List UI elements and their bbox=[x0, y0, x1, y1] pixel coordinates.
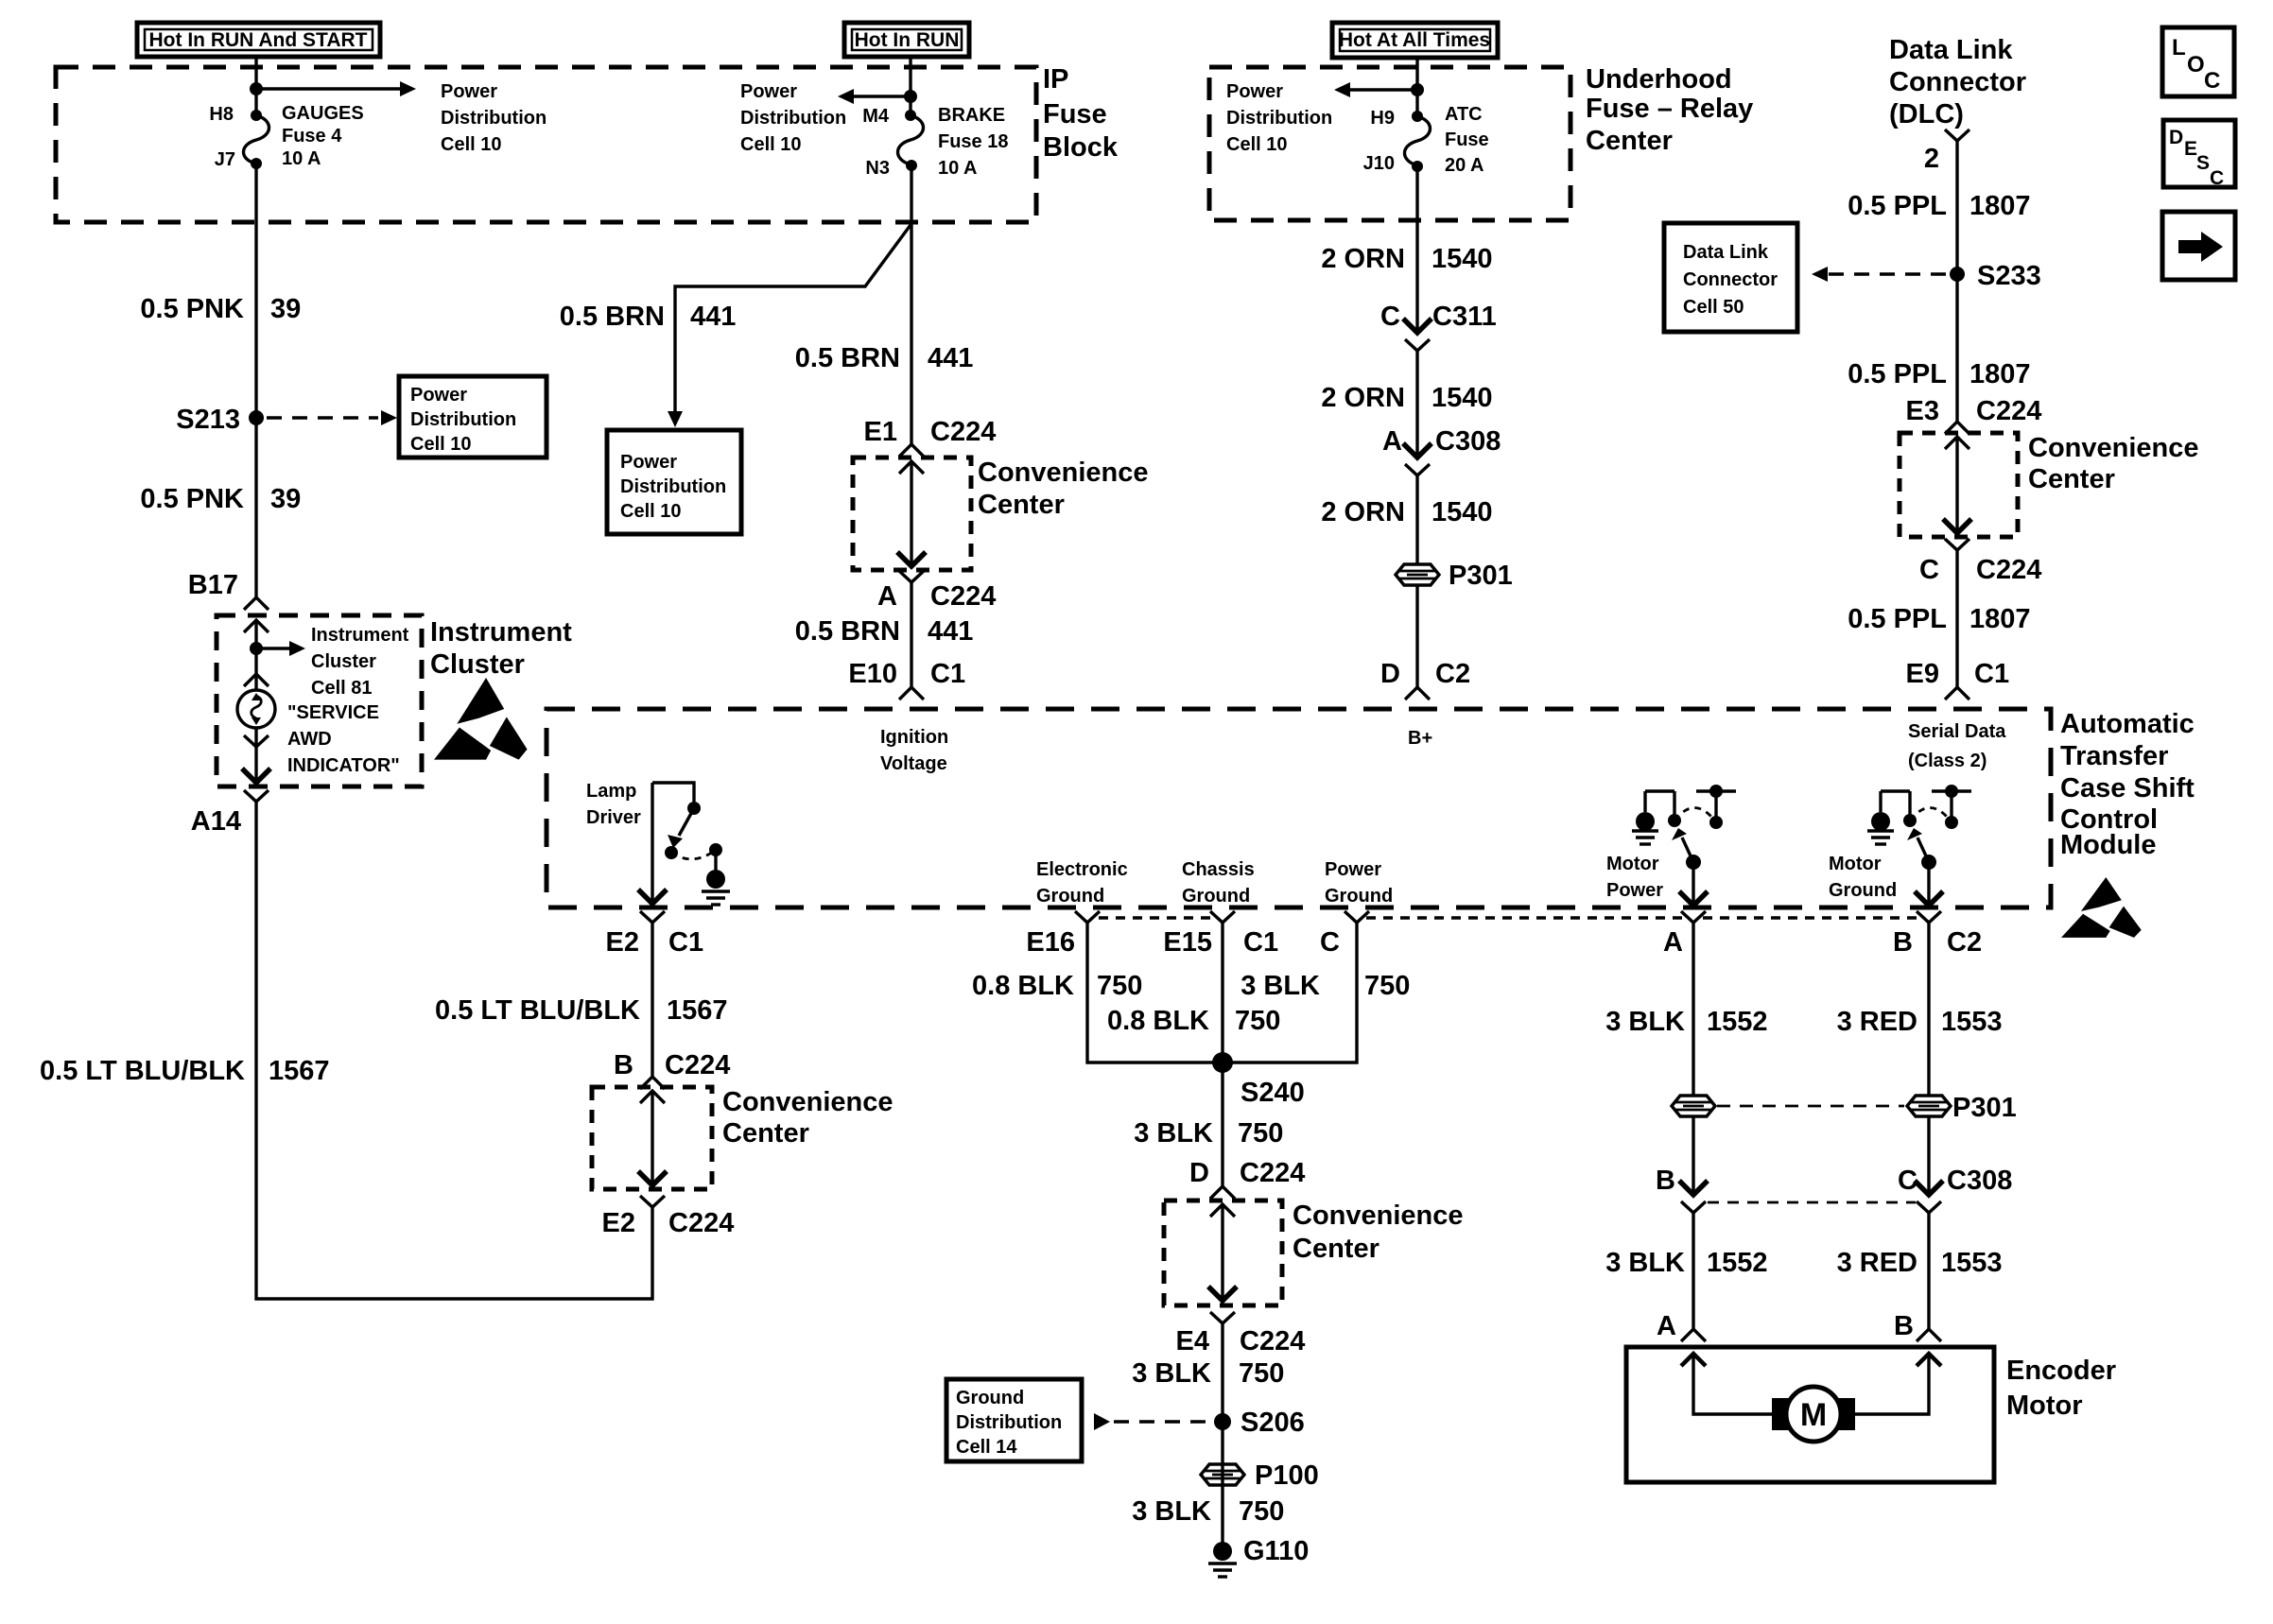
Convenience Center dashed box (D-E4) bbox=[1164, 1201, 1282, 1305]
wire label 3 BLK 1552 (lower) bbox=[1605, 1248, 1767, 1278]
dashed reference arrow from S213 bbox=[267, 410, 397, 425]
wire N3 down to E1 bbox=[910, 165, 912, 444]
wire C308 to encoder B bbox=[1927, 1212, 1930, 1329]
svg-text:1540: 1540 bbox=[1431, 383, 1493, 413]
pin E3 / connector C224 bbox=[1906, 396, 2042, 426]
svg-text:Instrument: Instrument bbox=[311, 625, 409, 646]
label: Motor Ground bbox=[1829, 854, 1897, 901]
svg-text:1552: 1552 bbox=[1707, 1248, 1768, 1278]
DESC legend box bbox=[2163, 120, 2235, 189]
pin C / connector C224 (right) bbox=[1919, 555, 2041, 585]
svg-text:0.5 LT BLU/BLK: 0.5 LT BLU/BLK bbox=[40, 1056, 245, 1086]
label: Data Link Connector (DLC) bbox=[1889, 35, 2026, 130]
node S206 bbox=[1214, 1408, 1305, 1438]
connector face dotted line bbox=[1099, 916, 1917, 919]
svg-text:2 ORN: 2 ORN bbox=[1321, 244, 1405, 274]
motor M symbol bbox=[1772, 1387, 1855, 1442]
svg-text:Hot At All Times: Hot At All Times bbox=[1339, 29, 1490, 51]
svg-text:Fuse: Fuse bbox=[1445, 130, 1489, 150]
wire C311 to C308 bbox=[1415, 350, 1418, 458]
grommet P301 (left) bbox=[1672, 1096, 1715, 1116]
wire label 0.5 BRN 441 bbox=[795, 343, 974, 373]
pin E4 / connector C224 bbox=[1176, 1326, 1306, 1356]
svg-text:Center: Center bbox=[978, 490, 1065, 520]
svg-text:441: 441 bbox=[690, 302, 736, 332]
connector chevron A (motor power) bbox=[1681, 911, 1706, 923]
svg-text:Serial Data: Serial Data bbox=[1908, 721, 2006, 742]
connector chevron E10 bbox=[899, 687, 924, 700]
svg-text:A: A bbox=[1663, 927, 1683, 958]
svg-text:H8: H8 bbox=[209, 104, 234, 125]
wire through convenience center bbox=[897, 461, 926, 566]
svg-text:Distribution: Distribution bbox=[956, 1412, 1062, 1433]
svg-text:P100: P100 bbox=[1255, 1460, 1319, 1491]
svg-text:Ground: Ground bbox=[1829, 880, 1897, 901]
svg-text:Center: Center bbox=[722, 1118, 809, 1149]
label: ATC Fuse 20 A bbox=[1445, 104, 1489, 176]
pin E10 / connector C1 bbox=[848, 659, 965, 689]
svg-text:2: 2 bbox=[1924, 144, 1939, 174]
label: Instrument Cluster Cell 81 SERVICE AWD INDICATOR bbox=[287, 625, 409, 776]
svg-text:N3: N3 bbox=[865, 158, 890, 179]
svg-text:Encoder: Encoder bbox=[2006, 1356, 2116, 1386]
svg-text:D: D bbox=[1380, 659, 1400, 689]
wire label 0.5 PPL 1807 bbox=[1848, 191, 2030, 221]
svg-text:S213: S213 bbox=[176, 405, 240, 435]
wire P301 to D C2 bbox=[1415, 584, 1418, 687]
svg-text:Data Link: Data Link bbox=[1889, 35, 2013, 65]
svg-text:Power: Power bbox=[1606, 880, 1663, 901]
svg-text:39: 39 bbox=[270, 484, 301, 514]
svg-text:1552: 1552 bbox=[1707, 1007, 1768, 1037]
dashed link between C308 halves bbox=[1708, 1201, 1916, 1204]
connector chevron above indicator bbox=[244, 674, 269, 686]
wire P301 to B C308 bbox=[1692, 1115, 1694, 1195]
arrow to Power Distribution Cell 10 (middle) bbox=[838, 89, 911, 104]
Power Distribution Cell 10 box (near S213) bbox=[399, 376, 547, 458]
svg-text:(DLC): (DLC) bbox=[1889, 99, 1964, 130]
svg-text:C308: C308 bbox=[1947, 1166, 2012, 1196]
label: Power Distribution Cell 10 (left) bbox=[441, 81, 547, 155]
dashed link between P301 grommets bbox=[1717, 1105, 1904, 1108]
svg-text:AWD: AWD bbox=[287, 729, 332, 750]
svg-text:750: 750 bbox=[1364, 971, 1410, 1001]
svg-text:Case Shift: Case Shift bbox=[2060, 773, 2195, 803]
label: GAUGES Fuse 4 10 A bbox=[282, 103, 364, 169]
connector chevron below indicator bbox=[244, 735, 269, 747]
Automatic Transfer Case Shift Control Module dashed box bbox=[547, 709, 2051, 907]
svg-text:Connector: Connector bbox=[1889, 67, 2026, 97]
wire label 0.5 PPL 1807 (second) bbox=[1848, 359, 2030, 389]
svg-text:Module: Module bbox=[2060, 830, 2157, 860]
dashed reference arrow from S233 bbox=[1812, 267, 1946, 282]
node: junction on brake feed bbox=[904, 90, 917, 103]
svg-text:3 BLK: 3 BLK bbox=[1241, 971, 1320, 1001]
svg-text:Center: Center bbox=[2028, 464, 2115, 494]
svg-text:C1: C1 bbox=[1974, 659, 2009, 689]
svg-text:Fuse – Relay: Fuse – Relay bbox=[1586, 94, 1753, 124]
svg-text:C224: C224 bbox=[665, 1050, 730, 1080]
svg-text:Power: Power bbox=[410, 385, 467, 406]
svg-text:Power: Power bbox=[1325, 859, 1381, 880]
connector chevron B C224 bbox=[640, 1077, 665, 1089]
wire C down to E9 bbox=[1955, 550, 1958, 687]
svg-text:Connector: Connector bbox=[1683, 269, 1778, 290]
wire A (motor power) down to P301 bbox=[1692, 923, 1694, 1097]
svg-text:Distribution: Distribution bbox=[740, 108, 846, 129]
svg-text:S233: S233 bbox=[1977, 261, 2041, 291]
motor ground switch bbox=[1867, 785, 1971, 906]
svg-text:E10: E10 bbox=[848, 659, 897, 689]
svg-text:Power: Power bbox=[1226, 81, 1283, 102]
svg-text:E4: E4 bbox=[1176, 1326, 1209, 1356]
inline connector C311 bbox=[1403, 319, 1431, 351]
svg-text:E9: E9 bbox=[1906, 659, 1939, 689]
wire A14 down and across to E2 C224 bbox=[256, 802, 652, 1299]
Power Distribution Cell 10 box (middle) bbox=[607, 430, 741, 534]
wire from Hot At All Times bbox=[1415, 58, 1418, 116]
svg-text:Fuse 4: Fuse 4 bbox=[282, 126, 342, 147]
pin C / connector C311 bbox=[1380, 302, 1497, 332]
svg-text:A: A bbox=[877, 581, 897, 612]
wire S240 down to D C224 bbox=[1221, 1063, 1223, 1186]
pin A / connector C224 bbox=[877, 581, 996, 612]
svg-text:3 RED: 3 RED bbox=[1837, 1248, 1917, 1278]
connector chevron B C2 bbox=[1917, 911, 1941, 923]
svg-text:C: C bbox=[2204, 68, 2220, 94]
motor power switch bbox=[1632, 785, 1736, 906]
svg-text:Distribution: Distribution bbox=[410, 409, 516, 430]
connector chevron E4 C224 bbox=[1210, 1312, 1235, 1323]
label: BRAKE Fuse 18 10 A bbox=[938, 105, 1008, 179]
svg-text:Fuse 18: Fuse 18 bbox=[938, 131, 1008, 152]
grommet P100 bbox=[1201, 1460, 1319, 1491]
wire label 0.8 BLK 750 (E16) bbox=[972, 971, 1142, 1001]
label: Power Ground bbox=[1325, 859, 1393, 907]
svg-text:441: 441 bbox=[928, 343, 973, 373]
wire label 3 BLK 750 (S240) bbox=[1134, 1118, 1283, 1149]
svg-text:C1: C1 bbox=[930, 659, 965, 689]
wire lamp driver output bbox=[638, 783, 667, 904]
svg-text:Center: Center bbox=[1293, 1234, 1379, 1264]
svg-text:1540: 1540 bbox=[1431, 244, 1493, 274]
ground G110 bbox=[1208, 1536, 1309, 1577]
connector chevron below cluster (A14) bbox=[244, 790, 269, 802]
wire label 0.5 PNK 39 bbox=[140, 294, 301, 324]
svg-text:2 ORN: 2 ORN bbox=[1321, 497, 1405, 527]
svg-text:H9: H9 bbox=[1370, 108, 1395, 129]
pin E1 / connector C224 bbox=[864, 417, 997, 447]
svg-text:Driver: Driver bbox=[586, 807, 641, 828]
svg-text:E3: E3 bbox=[1906, 396, 1939, 426]
node S240 bbox=[1212, 1052, 1305, 1108]
svg-text:0.5 LT BLU/BLK: 0.5 LT BLU/BLK bbox=[435, 995, 640, 1026]
svg-text:C: C bbox=[1898, 1166, 1917, 1196]
pin E2 / connector C1 bbox=[606, 927, 704, 958]
wire E4 down to G110 bbox=[1221, 1323, 1223, 1543]
wire label 2 ORN 1540 (third) bbox=[1321, 497, 1492, 527]
svg-text:E1: E1 bbox=[864, 417, 897, 447]
svg-text:C224: C224 bbox=[1976, 396, 2041, 426]
svg-text:E2: E2 bbox=[602, 1208, 635, 1238]
svg-text:A: A bbox=[1382, 426, 1402, 457]
svg-text:S240: S240 bbox=[1241, 1078, 1305, 1108]
svg-text:S: S bbox=[2196, 152, 2210, 174]
svg-text:Automatic: Automatic bbox=[2060, 709, 2195, 739]
dashed reference arrow to S206 bbox=[1094, 1413, 1210, 1430]
label: Electronic Ground bbox=[1036, 859, 1128, 907]
svg-text:C224: C224 bbox=[1240, 1326, 1305, 1356]
svg-text:1807: 1807 bbox=[1969, 604, 2031, 634]
arrow to Instrument Cluster Cell 81 bbox=[256, 641, 305, 656]
Data Link Connector Cell 50 box bbox=[1664, 223, 1797, 332]
svg-text:B: B bbox=[1656, 1166, 1675, 1196]
wire label 3 BLK 750 (G110) bbox=[1132, 1496, 1284, 1527]
svg-text:B: B bbox=[1893, 927, 1913, 958]
svg-text:C: C bbox=[2210, 167, 2224, 189]
connector chevron A C224 bbox=[899, 571, 924, 582]
svg-text:750: 750 bbox=[1235, 1006, 1280, 1036]
svg-text:Cell 10: Cell 10 bbox=[441, 134, 501, 155]
svg-text:Instrument: Instrument bbox=[430, 617, 572, 648]
wire label 0.5 PPL 1807 (third) bbox=[1848, 604, 2030, 634]
svg-text:C308: C308 bbox=[1435, 426, 1501, 457]
svg-text:C: C bbox=[1380, 302, 1400, 332]
svg-text:Power: Power bbox=[740, 81, 797, 102]
svg-text:Convenience: Convenience bbox=[722, 1087, 894, 1117]
svg-text:Cell 50: Cell 50 bbox=[1683, 297, 1744, 318]
svg-text:Cell 10: Cell 10 bbox=[410, 434, 471, 455]
pin D / connector C2 bbox=[1380, 659, 1470, 689]
svg-text:0.8 BLK: 0.8 BLK bbox=[1107, 1006, 1209, 1036]
wire label 2 ORN 1540 (second) bbox=[1321, 383, 1492, 413]
Convenience Center label (E1-A) bbox=[978, 458, 1149, 520]
label: Chassis Ground bbox=[1182, 859, 1255, 907]
wire inside encoder motor (A side) bbox=[1681, 1354, 1783, 1414]
svg-text:0.5 BRN: 0.5 BRN bbox=[795, 343, 900, 373]
svg-text:J7: J7 bbox=[215, 149, 235, 170]
svg-text:441: 441 bbox=[928, 616, 973, 647]
svg-text:1567: 1567 bbox=[667, 995, 728, 1026]
svg-text:P301: P301 bbox=[1449, 561, 1513, 591]
svg-text:3 BLK: 3 BLK bbox=[1134, 1118, 1213, 1149]
node S213 bbox=[176, 405, 264, 435]
ESD symbol (module) bbox=[2061, 877, 2142, 938]
connector chevron E9 bbox=[1945, 687, 1969, 700]
node: branch to cluster cell bbox=[250, 642, 263, 655]
svg-text:Distribution: Distribution bbox=[620, 476, 726, 497]
svg-text:E: E bbox=[2184, 138, 2197, 160]
svg-text:Cell 10: Cell 10 bbox=[1226, 134, 1287, 155]
svg-text:C224: C224 bbox=[668, 1208, 734, 1238]
grommet P301 bbox=[1396, 561, 1513, 591]
svg-text:0.5 BRN: 0.5 BRN bbox=[795, 616, 900, 647]
wire label 2 ORN 1540 bbox=[1321, 244, 1492, 274]
svg-text:Lamp: Lamp bbox=[586, 781, 636, 802]
svg-text:B: B bbox=[614, 1050, 633, 1080]
svg-text:Cell 81: Cell 81 bbox=[311, 678, 372, 699]
svg-text:1540: 1540 bbox=[1431, 497, 1493, 527]
label: Power Distribution Cell 10 (right) bbox=[1226, 81, 1332, 155]
fuse F4 GAUGES 10A bbox=[244, 110, 269, 169]
svg-text:C311: C311 bbox=[1432, 302, 1497, 332]
node: junction on gauges feed bbox=[250, 82, 263, 95]
Convenience Center label (E3-C) bbox=[2028, 433, 2199, 494]
svg-text:Fuse: Fuse bbox=[1043, 99, 1107, 130]
svg-text:10 A: 10 A bbox=[938, 158, 978, 179]
svg-text:0.5 PPL: 0.5 PPL bbox=[1848, 359, 1947, 389]
svg-text:S206: S206 bbox=[1241, 1408, 1305, 1438]
wire E2 down to B C224 bbox=[651, 923, 653, 1077]
wire label 0.8 BLK 750 (E15) bbox=[1107, 1006, 1280, 1036]
svg-text:B+: B+ bbox=[1408, 728, 1432, 749]
svg-text:Transfer: Transfer bbox=[2060, 741, 2168, 771]
svg-text:Underhood: Underhood bbox=[1586, 64, 1732, 95]
svg-text:Hot In RUN: Hot In RUN bbox=[855, 29, 960, 51]
svg-text:E15: E15 bbox=[1163, 927, 1212, 958]
svg-text:G110: G110 bbox=[1243, 1536, 1309, 1566]
Encoder Motor box bbox=[1626, 1347, 1994, 1482]
inline connector C308 (right) bbox=[1915, 1181, 1943, 1213]
svg-text:20 A: 20 A bbox=[1445, 155, 1484, 176]
svg-text:Motor: Motor bbox=[2006, 1391, 2083, 1421]
svg-text:B17: B17 bbox=[188, 570, 238, 600]
Underhood Fuse-Relay Center dashed box bbox=[1209, 67, 1570, 220]
svg-text:ATC: ATC bbox=[1445, 104, 1483, 125]
svg-text:E16: E16 bbox=[1026, 927, 1075, 958]
arrow to Power Distribution Cell 10 (right) bbox=[1334, 82, 1417, 97]
wire from Hot In RUN bbox=[909, 57, 911, 115]
LOC legend box bbox=[2162, 27, 2234, 96]
svg-text:(Class 2): (Class 2) bbox=[1908, 751, 1987, 771]
svg-text:P301: P301 bbox=[1952, 1093, 2017, 1123]
connector chevron at DLC pin 2 bbox=[1945, 130, 1969, 141]
svg-text:C224: C224 bbox=[1976, 555, 2041, 585]
svg-text:Hot In RUN And START: Hot In RUN And START bbox=[149, 29, 368, 51]
svg-text:Power: Power bbox=[620, 452, 677, 473]
IP Fuse Block label bbox=[1043, 64, 1119, 163]
lamp driver switch bbox=[652, 783, 730, 905]
connector chevron E2 C224 bbox=[640, 1196, 665, 1207]
label: Encoder Motor bbox=[2006, 1356, 2116, 1421]
wire label 0.5 LT BLU/BLK 1567 (left) bbox=[40, 1056, 329, 1086]
svg-text:3 BLK: 3 BLK bbox=[1605, 1007, 1685, 1037]
wire label 3 RED 1553 (lower) bbox=[1837, 1248, 2003, 1278]
Instrument Cluster dashed box bbox=[217, 615, 422, 786]
svg-text:3 BLK: 3 BLK bbox=[1132, 1496, 1211, 1527]
svg-text:Block: Block bbox=[1043, 132, 1119, 163]
svg-text:C224: C224 bbox=[1240, 1158, 1305, 1188]
pin B / connector C2 bbox=[1893, 927, 1982, 958]
grommet P301 (right) bbox=[1907, 1093, 2017, 1123]
svg-text:0.5 BRN: 0.5 BRN bbox=[560, 302, 665, 332]
label box: Hot In RUN bbox=[844, 23, 969, 57]
AWD indicator lamp symbol bbox=[237, 690, 275, 728]
svg-text:INDICATOR": INDICATOR" bbox=[287, 755, 400, 776]
wire DLC down to S233 bbox=[1955, 141, 1958, 422]
wire branch diagonal to power distribution bbox=[668, 225, 911, 427]
svg-text:M4: M4 bbox=[862, 106, 890, 127]
label: Ignition Voltage bbox=[880, 727, 948, 774]
connector chevron inside cluster bbox=[244, 620, 269, 632]
arrow to Power Distribution Cell 10 bbox=[256, 81, 416, 96]
wire label 0.5 LT BLU/BLK 1567 (center) bbox=[435, 995, 727, 1026]
Convenience Center dashed box (E3-C) bbox=[1900, 433, 2018, 537]
Convenience Center label (B-E2) bbox=[722, 1087, 894, 1149]
svg-text:C: C bbox=[1320, 927, 1340, 958]
label: Automatic Transfer Case Shift Control Module bbox=[2060, 709, 2195, 860]
svg-text:Distribution: Distribution bbox=[1226, 108, 1332, 129]
svg-text:C2: C2 bbox=[1435, 659, 1470, 689]
svg-text:3 RED: 3 RED bbox=[1837, 1007, 1917, 1037]
pin E9 / connector C1 bbox=[1906, 659, 2010, 689]
connector chevron B17 bbox=[244, 597, 269, 610]
svg-text:Ignition: Ignition bbox=[880, 727, 948, 748]
connector chevron D bbox=[1405, 687, 1430, 700]
wire through convenience center (D-E4) bbox=[1208, 1204, 1237, 1301]
svg-text:C224: C224 bbox=[930, 581, 996, 612]
svg-text:D: D bbox=[2169, 127, 2183, 148]
svg-text:C2: C2 bbox=[1947, 927, 1982, 958]
svg-text:Electronic: Electronic bbox=[1036, 859, 1128, 880]
wire label 3 BLK 1552 bbox=[1605, 1007, 1767, 1037]
connector chevron D C224 bbox=[1210, 1186, 1235, 1199]
svg-text:2 ORN: 2 ORN bbox=[1321, 383, 1405, 413]
svg-text:1807: 1807 bbox=[1969, 359, 2031, 389]
svg-text:Cluster: Cluster bbox=[430, 649, 525, 680]
svg-text:0.5 PNK: 0.5 PNK bbox=[140, 484, 244, 514]
svg-text:"SERVICE: "SERVICE bbox=[287, 702, 379, 723]
svg-text:O: O bbox=[2187, 52, 2205, 78]
wire from Hot In RUN And START bbox=[254, 57, 257, 115]
ESD symbol (instrument cluster) bbox=[434, 678, 528, 760]
node S233 bbox=[1950, 261, 2041, 291]
svg-text:Center: Center bbox=[1586, 126, 1673, 156]
svg-text:750: 750 bbox=[1239, 1496, 1284, 1527]
svg-text:Cell 10: Cell 10 bbox=[620, 501, 681, 522]
svg-text:39: 39 bbox=[270, 294, 301, 324]
svg-text:0.5 PPL: 0.5 PPL bbox=[1848, 604, 1947, 634]
label: Serial Data (Class 2) bbox=[1908, 721, 2006, 771]
wire J7 down to B17 bbox=[254, 164, 257, 597]
ground bus wires E16 E15 C bbox=[1087, 923, 1357, 1063]
svg-text:Data Link: Data Link bbox=[1683, 242, 1769, 263]
pin E2 / connector C224 bbox=[602, 1208, 735, 1238]
svg-text:D: D bbox=[1189, 1158, 1209, 1188]
svg-text:Cell 10: Cell 10 bbox=[740, 134, 801, 155]
svg-text:1553: 1553 bbox=[1941, 1007, 2003, 1037]
Ground Distribution Cell 14 box bbox=[946, 1379, 1082, 1461]
svg-text:C224: C224 bbox=[930, 417, 996, 447]
svg-text:Voltage: Voltage bbox=[880, 753, 947, 774]
svg-text:1807: 1807 bbox=[1969, 191, 2031, 221]
inline connector C308 (left) bbox=[1679, 1181, 1708, 1213]
svg-text:C1: C1 bbox=[668, 927, 703, 958]
svg-text:GAUGES: GAUGES bbox=[282, 103, 364, 124]
connector chevron E15 bbox=[1210, 911, 1235, 923]
svg-text:Power: Power bbox=[441, 81, 497, 102]
wire label 0.5 PNK 39 (second) bbox=[140, 484, 301, 514]
wire through convenience center (E3-C) bbox=[1943, 437, 1971, 533]
connector chevron C (power ground) bbox=[1345, 911, 1369, 923]
wire to cluster exit bbox=[242, 728, 270, 783]
svg-text:750: 750 bbox=[1097, 971, 1142, 1001]
label box: Hot In RUN And START bbox=[137, 23, 380, 57]
wire C308 to encoder A bbox=[1692, 1212, 1694, 1329]
svg-text:Motor: Motor bbox=[1829, 854, 1882, 874]
Instrument Cluster label bbox=[430, 617, 572, 680]
arrow legend box bbox=[2162, 212, 2235, 280]
